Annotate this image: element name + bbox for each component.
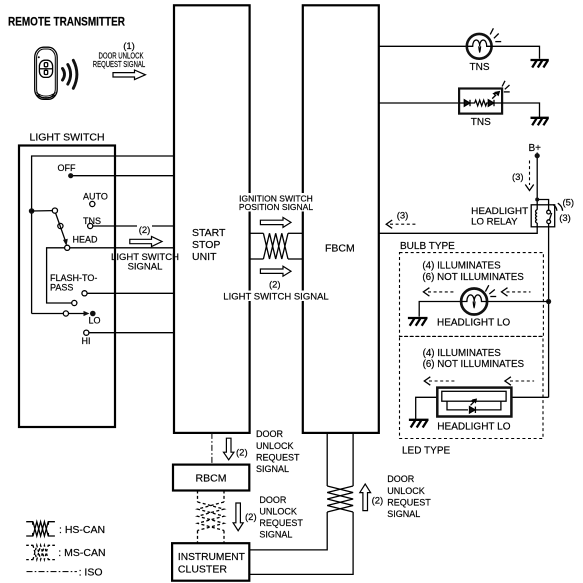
svg-text:AUTO: AUTO [83,192,108,202]
contact LO [90,311,96,317]
annotation (2) light switch signal [137,221,152,231]
svg-text:(2): (2) [236,447,248,458]
svg-text:TNS: TNS [83,216,101,226]
svg-text:LO RELAY: LO RELAY [471,217,518,228]
dashed arrow (3) down [529,161,531,186]
dashed arrow left (led box right) [510,380,534,382]
switch lever [56,213,66,242]
wire relay contact down [548,224,550,301]
svg-text:(3): (3) [559,213,571,224]
wire TNS bulb to ground [492,46,540,59]
rays TNS bulb [490,28,501,41]
contact TNS [88,223,93,228]
svg-text:HEADLIGHT LO: HEADLIGHT LO [437,317,510,328]
wire common feed [32,156,174,314]
start stop unit U1 box [174,5,250,433]
wire FBCM to TNS bulb [379,45,467,47]
arrow (2) down to cluster [233,503,243,531]
svg-text:RBCM: RBCM [196,472,227,484]
svg-text:UNIT: UNIT [192,251,217,263]
svg-text:(2): (2) [139,225,151,236]
svg-text:UNLOCK: UNLOCK [259,507,297,517]
svg-text:DOOR: DOOR [387,474,415,484]
rays headlight bulb [485,285,496,296]
TNS LED unit [459,89,502,114]
ground TNS bulb [531,60,549,68]
contact flash lever [72,300,77,305]
svg-text:CLUSTER: CLUSTER [178,563,227,575]
ISO wire U1 to RBCM [211,433,213,465]
junction relay-bulb [546,299,551,304]
svg-text:FLASH-TO-: FLASH-TO- [50,273,97,283]
svg-text:SIGNAL: SIGNAL [128,262,163,273]
contact AUTO [90,201,95,206]
wire HI row [89,332,174,334]
svg-text:INSTRUMENT: INSTRUMENT [178,551,246,563]
wire HEAD row [70,247,174,249]
svg-text:DOOR: DOOR [256,429,284,439]
bulb type dashed box [400,253,544,337]
ground headlight led [409,420,429,428]
headlight lo bulb lamp [461,289,487,315]
svg-text:SIGNAL: SIGNAL [387,509,420,519]
wire led right to relay [511,396,548,398]
svg-text:REQUEST: REQUEST [256,452,300,462]
svg-text:: HS-CAN: : HS-CAN [59,524,105,536]
svg-text:BULB TYPE: BULB TYPE [400,241,455,252]
signal waves [63,60,77,88]
RBCM box [173,465,249,491]
dashed arrow left (bulb box left) [428,291,455,293]
svg-text:LIGHT SWITCH SIGNAL: LIGHT SWITCH SIGNAL [223,291,328,302]
wire FBCM to TNS LED [379,102,459,104]
rays TNS LED [502,81,510,92]
arrow light switch signal (2) middle [260,266,291,276]
legend MS-CAN [26,545,55,559]
arrow light switch signal [130,237,162,247]
contact OFF [68,173,73,178]
svg-text:DOOR: DOOR [259,495,287,505]
svg-text:UNLOCK: UNLOCK [387,486,425,496]
light switch box [19,146,115,428]
switch pivot [29,208,35,214]
wire bulb right to junction [487,301,548,303]
MS-CAN twisted pair RBCM to cluster [198,491,225,544]
headlight lo led unit [437,388,511,417]
contact FLASH [82,291,87,296]
svg-text:(3): (3) [397,211,409,222]
contact LO lever [63,311,68,316]
wire OFF row [71,175,174,177]
svg-text:(3): (3) [512,172,524,183]
svg-text:(4) ILLUMINATES: (4) ILLUMINATES [423,348,502,359]
dashed arrow left (led box left) [429,380,457,382]
HS-CAN twisted pair FBCM to cluster [249,433,353,575]
relay contact [537,200,548,211]
wire led left to ground [416,397,438,419]
svg-text:HEAD: HEAD [73,235,99,245]
svg-text:HEADLIGHT: HEADLIGHT [471,206,528,217]
arrow (2) down to RBCM [224,438,234,460]
svg-text:(5): (5) [562,197,574,208]
contact HEAD [65,245,70,250]
fbcm box [303,5,379,433]
svg-text:(2): (2) [269,280,281,291]
svg-text:SIGNAL: SIGNAL [256,464,289,474]
wire HEAD to flash contact [47,248,72,303]
wire TNS LED to ground [502,103,539,117]
svg-text:(6) NOT ILLUMINATES: (6) NOT ILLUMINATES [422,272,524,283]
key fob body [35,47,58,99]
wire TNS row [93,225,174,227]
wire LO row [32,313,64,315]
svg-text:START: START [192,227,226,239]
ground TNS LED [531,118,549,126]
legend ISO [27,571,77,573]
wire FLASH row [87,292,174,294]
svg-text:PASS: PASS [50,283,73,293]
svg-text:STOP: STOP [192,239,220,251]
contact HI [84,330,89,335]
svg-text:OFF: OFF [58,163,76,173]
led type dashed box [400,336,544,438]
wire relay coil to FBCM [379,227,537,234]
legend HS-CAN [26,522,55,536]
dashed arrow left (bulb box right) [507,291,531,293]
svg-text:POSITION SIGNAL: POSITION SIGNAL [239,202,313,212]
svg-text:UNLOCK: UNLOCK [256,441,294,451]
svg-text:LED TYPE: LED TYPE [402,446,450,457]
svg-text:SIGNAL: SIGNAL [259,530,292,540]
arrow ignition signal [260,217,291,227]
svg-text:REQUEST SIGNAL: REQUEST SIGNAL [93,59,146,69]
ground headlight bulb [408,318,428,326]
svg-text:TNS: TNS [471,117,491,128]
svg-text:HI: HI [82,336,91,346]
svg-text:FBCM: FBCM [325,243,355,255]
svg-text:LIGHT SWITCH: LIGHT SWITCH [30,132,105,144]
svg-text:(6) NOT ILLUMINATES: (6) NOT ILLUMINATES [423,359,525,370]
instrument cluster box [172,543,249,581]
svg-text:REQUEST: REQUEST [387,497,431,507]
arrow (1) right [113,70,145,80]
svg-text:REQUEST: REQUEST [259,518,303,528]
svg-text:(4) ILLUMINATES: (4) ILLUMINATES [422,261,501,272]
annotation ignition switch position signal [242,193,311,212]
relay actuation arcs (5) [553,203,563,211]
svg-text:(2): (2) [245,512,257,523]
svg-text:REMOTE TRANSMITTER: REMOTE TRANSMITTER [8,17,126,29]
svg-text:: ISO: : ISO [79,566,103,578]
svg-text:TNS: TNS [470,62,490,73]
HS-CAN twisted pair between U1 and FBCM [250,233,303,259]
wire bulb left to ground [419,302,461,317]
arrow (2) up [360,484,371,511]
relay coil [536,205,538,227]
svg-text:: MS-CAN: : MS-CAN [58,547,105,559]
svg-text:B+: B+ [529,143,542,154]
svg-text:HEADLIGHT LO: HEADLIGHT LO [437,422,510,433]
TNS bulb lamp [467,34,492,59]
svg-text:(2): (2) [372,496,384,507]
svg-text:LO: LO [89,316,101,326]
